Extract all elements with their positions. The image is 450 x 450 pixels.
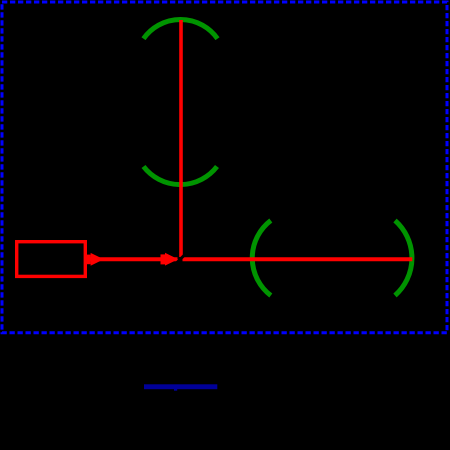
wire: horizontal beam, beamsplitter to right mirror [183,257,413,261]
arrowhead 1 (after laser) [87,253,104,266]
caption underline notch [174,389,177,391]
mirror M2: top cavity, lower arc [144,167,218,185]
figure background region [0,0,418,335]
wire: vertical beam, top mirror to beamsplitter [179,20,183,257]
caption underline (navy) [144,384,217,389]
wire: horizontal beam, laser to beamsplitter [87,257,177,261]
beamsplitter (45-degree black plate) [171,249,191,269]
mirror M3: right cavity, left arc [252,221,271,296]
mirror M4: right cavity, right arc [395,221,412,296]
arrowhead 2 (before beamsplitter) [161,253,179,266]
blue dashed enclosure border [2,2,447,333]
laser box [17,242,86,277]
mirror M1: top cavity, upper arc [144,19,218,38]
